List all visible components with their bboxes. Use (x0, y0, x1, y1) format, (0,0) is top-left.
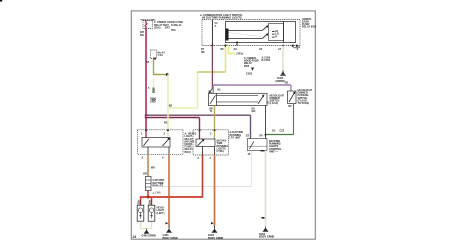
headlight relay K1 dashed box (138, 130, 184, 155)
wire white faint horizontal (151, 186, 252, 188)
svg-text:7.5A: 7.5A (158, 53, 164, 57)
switch S1 contact sub-box (269, 24, 284, 41)
svg-text:W/ DAYTIME RUNNING LIGHTS: W/ DAYTIME RUNNING LIGHTS (202, 16, 242, 20)
relay K1 pin labels top (141, 133, 166, 136)
wire olive dimmer to relay K2 (214, 106, 216, 131)
relay K1 body (142, 138, 170, 148)
label RED near crimson (152, 98, 156, 102)
relay K1 blade (163, 138, 170, 146)
ground G4 symbol (263, 227, 269, 232)
switch S1 slide bar rails (227, 31, 263, 39)
dimmer S2 right blade (258, 95, 264, 104)
label on purple (218, 89, 222, 92)
wire pale yellow from switch pin (225, 46, 227, 73)
wire pale yellow horizontal link (168, 107, 198, 109)
connector C marker text (246, 71, 253, 75)
frame border (131, 11, 315, 239)
corner mark (0, 0, 2, 2)
switch S1 right blades (262, 26, 268, 39)
headlight bulb LH (137, 205, 144, 221)
svg-text:(GRND): (GRND) (276, 79, 286, 83)
wire black dimmer to relay K3 (265, 106, 267, 139)
fuse F1 element (145, 21, 147, 29)
fuse box F1 dashed (143, 21, 153, 29)
frame page label 24 (133, 235, 137, 239)
svg-text:BODY GRND: BODY GRND (259, 236, 274, 239)
combination light switch S1 title (200, 13, 242, 20)
wire crimson drop to relay K2 (199, 118, 201, 130)
fuse F2 lower mark (153, 58, 156, 60)
ground G2 label (163, 234, 178, 240)
svg-text:A: A (297, 48, 299, 51)
headlight bulb RH (148, 205, 155, 221)
svg-text:(LO HI): (LO HI) (270, 102, 278, 105)
switch S1 feed label (215, 21, 218, 28)
relay K2 text inside (217, 140, 229, 153)
fuse F2 dashed box (151, 50, 157, 59)
svg-text:G401 GRND: G401 GRND (142, 235, 156, 238)
connector C marker triangle (251, 68, 254, 71)
svg-text:B:C552: B:C552 (262, 59, 271, 62)
relay K3 pin labels bottom (248, 150, 265, 156)
relay K3 body (248, 139, 268, 151)
wire red bus horizontal (141, 196, 203, 198)
passing switch S3 blade (289, 92, 295, 102)
junction dot A (166, 73, 169, 76)
switch S1 divider (283, 22, 285, 43)
svg-text:△ C445: △ C445 (152, 192, 162, 195)
passing switch S3 box (288, 91, 297, 104)
wire white faint vertical (251, 151, 253, 187)
svg-text:BOX: BOX (244, 65, 250, 68)
svg-text:RELAY BOX: RELAY BOX (302, 26, 317, 29)
relay K1 coil diagonal (144, 139, 150, 146)
relay K1 pin stubs bottom (148, 147, 169, 154)
maroon arrow into dimmer (209, 89, 212, 94)
switch S1 contact marks (272, 29, 279, 39)
wire red from connector (147, 191, 149, 198)
headlight dimmer switch S2 body (209, 93, 268, 105)
svg-text:C552: C552 (246, 71, 253, 75)
relay K2 text right (230, 131, 244, 139)
wire red from relay K2 (202, 155, 204, 198)
wire crimson branch horizontal (146, 117, 200, 119)
ground G4 label (259, 233, 274, 239)
svg-text:24: 24 (133, 235, 137, 239)
relay K1 text right (185, 133, 196, 154)
wire green vertical from S3 (293, 104, 295, 135)
svg-text:50A: 50A (171, 28, 176, 32)
relay K3 pin labels top (246, 135, 263, 138)
wire tan ground drop (282, 46, 284, 71)
svg-text:(LEFT): (LEFT) (157, 212, 165, 215)
relay K3 mid line (248, 145, 268, 147)
switch S1 internal feed wire (211, 20, 213, 46)
wire olive from fuse F2 (154, 59, 168, 75)
wire orange from relay K2 to ground (214, 155, 216, 226)
fuse F1 wire label W6 (140, 30, 144, 37)
switch S1 inner body (226, 22, 296, 43)
svg-text:▬ P: ▬ P (272, 34, 277, 38)
DRL relay K2 dashed box (193, 130, 229, 155)
relay K2 pin labels top (195, 133, 212, 136)
svg-text:GN: GN (252, 110, 256, 113)
dimmer S2 left blade (210, 95, 216, 104)
svg-text:RD: RD (138, 202, 142, 205)
svg-text:OR: OR (143, 173, 147, 176)
dimmer S2 pin label left (210, 108, 214, 114)
wire purple corner to dimmer (212, 85, 214, 93)
switch S1 bottom pin labels (201, 48, 299, 54)
wire pale yellow vertical to relay K1 (167, 75, 169, 131)
wire red bulb stub 1 (140, 196, 142, 205)
bulb pin labels (138, 200, 153, 206)
wire amber from relay K1 (147, 154, 149, 176)
relay K2 blade (198, 139, 204, 145)
junction dot red 1 (147, 196, 150, 199)
ground G401 top label (276, 76, 286, 83)
passing switch S3 corner (290, 85, 292, 91)
ground G1 symbol (144, 229, 149, 234)
wire pale yellow riser (197, 72, 199, 109)
svg-text:(50A) BAT: (50A) BAT (154, 25, 170, 29)
svg-text:BODY GRND: BODY GRND (208, 237, 223, 240)
switch S1 right outside text (302, 18, 317, 29)
connector C552 text (244, 57, 259, 68)
svg-text:(YEL): (YEL) (237, 52, 244, 56)
wire amber label (143, 167, 155, 176)
svg-text:GND: GND (150, 100, 156, 103)
relay K3 labels upper right (272, 130, 285, 133)
wire crimson main vertical (145, 29, 147, 131)
bulb text right (157, 207, 165, 215)
connector tick K1 ground (166, 222, 169, 224)
svg-text:LTS UNIT: LTS UNIT (230, 136, 242, 139)
relay K1 pin stubs top (145, 129, 169, 137)
svg-text:TO PASS): TO PASS) (298, 102, 310, 105)
relay K2 body (196, 139, 215, 147)
label left of ground tan (262, 56, 271, 62)
svg-text:BOX): BOX) (185, 151, 191, 154)
svg-text:RD: RD (140, 33, 144, 37)
label under branch (164, 121, 168, 125)
passing switch S3 pin label below (289, 105, 293, 108)
dimmer S2 pin label right (252, 102, 270, 113)
svg-text:C52: C52 (280, 130, 285, 133)
wire purple drop to relay K3 (250, 115, 252, 138)
svg-text:W5: W5 (151, 167, 155, 170)
ground G3 label (208, 234, 223, 240)
ground G3 symbol (212, 226, 218, 233)
svg-text:A: A (215, 24, 217, 28)
fuse F2 left label (146, 60, 149, 64)
connector C445 text (152, 179, 165, 195)
svg-text:RD: RD (201, 51, 205, 54)
wire purple lavender horizontal (213, 84, 291, 86)
fuse F1 text UNDER-HOOD FUSE/RELAY BOX (154, 20, 183, 32)
ground G1 label (142, 235, 156, 238)
connector tick K2 ground (211, 222, 214, 224)
svg-text:BODY GRND: BODY GRND (163, 237, 178, 240)
junction dot green (265, 134, 267, 136)
svg-text:UNIT —: UNIT — (269, 150, 279, 153)
relay K2 pin stubs bottom (203, 147, 215, 156)
svg-text:RUN LTS: RUN LTS (153, 185, 164, 188)
wire olive horizontal top (198, 71, 226, 73)
dimmer S2 text right (270, 94, 285, 105)
switch S1 bottom pin dots (211, 41, 284, 46)
in-line connector yellow stub (229, 46, 236, 54)
fuse F2 text (158, 50, 166, 57)
wire cream bulb grounds (141, 222, 152, 229)
svg-text:B2: B2 (169, 104, 173, 108)
wire green horizontal to node (266, 134, 294, 136)
relay K3 text right (269, 140, 282, 153)
fuse F1 label HOT AT ALL TIMES (141, 18, 157, 21)
passing switch S3 text right (298, 89, 313, 105)
svg-text:RD: RD (149, 202, 153, 205)
wire tan from relay K3 to ground (265, 151, 267, 227)
relay K1 pin labels bottom (142, 156, 165, 159)
junction dot red 2 (168, 196, 171, 199)
wire maroon from switch S1 (211, 46, 213, 89)
connector stub C below fuse F2 (153, 78, 155, 91)
connector stub label (148, 87, 157, 103)
ground G401 top (280, 71, 286, 76)
wire purple branch horizontal (146, 115, 251, 116)
svg-text:CTRL): CTRL) (217, 150, 225, 153)
relay K3 blade (250, 141, 255, 149)
wire red bulb stub 2 (151, 197, 153, 205)
in-line connector label (237, 52, 244, 56)
switch S1 bar end cap (226, 29, 229, 41)
ground G2 symbol (166, 226, 172, 233)
node junction crimson branches (145, 114, 148, 118)
passing switch S3 label left (285, 82, 289, 85)
svg-text:YL: YL (210, 110, 214, 113)
dimmer S2 rails (217, 96, 259, 102)
wire orange from relay K1 to ground (168, 154, 170, 226)
combination light switch S1 dashed box (202, 20, 300, 46)
dimmer S2 compartment divider (216, 93, 218, 105)
relay K2 pin stubs top (199, 129, 216, 139)
connector tick K3 ground (262, 217, 265, 219)
connector C445 box (146, 177, 152, 191)
switch S1 bottom-right bracket (292, 45, 300, 48)
label B2 on pale wire (169, 104, 173, 108)
connector green mark (152, 88, 154, 94)
relay K2 pin labels bottom (198, 157, 212, 160)
